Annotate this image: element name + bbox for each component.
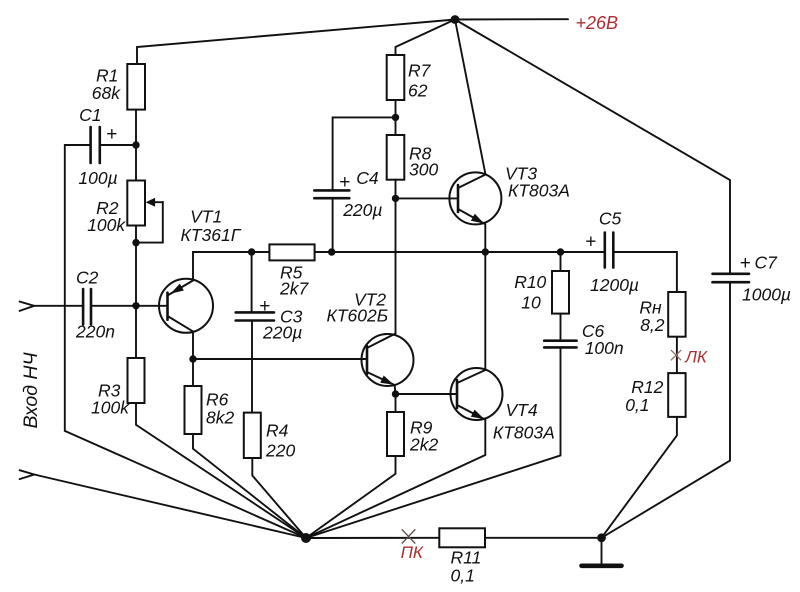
svg-text:КТ361Г: КТ361Г (181, 225, 242, 245)
wire R2 bottom to R3 top (135, 226, 137, 359)
wire R7/R8 node to C4 top (333, 117, 396, 190)
svg-text:300: 300 (409, 160, 438, 180)
wire output rail (332, 251, 605, 253)
label R4 value (265, 421, 295, 461)
svg-text:C4: C4 (356, 168, 379, 188)
wire supply node to R1 top (137, 20, 455, 65)
resistor R4 220 (244, 413, 261, 458)
label C1 value (78, 105, 117, 188)
wire C1 ground branch down and diagonal to ground node (65, 145, 306, 538)
wire C3 bottom to R4 top (251, 321, 253, 413)
svg-text:100n: 100n (585, 338, 624, 358)
node C4 bottom on output rail (328, 248, 335, 255)
label R12 value (625, 377, 663, 415)
wire R11 to ground symbol node (485, 537, 602, 539)
wire R5 right to rail (315, 251, 332, 253)
label C7 value (740, 253, 792, 305)
wire C5 right to Rn (613, 252, 677, 292)
node VT3 emitter / VT4 collector on rail (482, 248, 489, 255)
wire R6 bottom diagonal to ground node (193, 434, 306, 538)
wire node to R8 top (395, 117, 397, 135)
wire C2 to VT1 base node (91, 305, 136, 307)
wire supply node to VT3 collector (455, 20, 486, 175)
transistor VT3 KT803A (NPN) (396, 172, 502, 224)
svg-text:C1: C1 (79, 105, 101, 125)
svg-text:КТ803А: КТ803А (508, 181, 570, 201)
wiper arrow of R2 (146, 198, 163, 207)
wire supply node to R7 top (396, 20, 456, 56)
label R7 value (408, 61, 432, 101)
wire VT1 emitter to R5 node (193, 252, 252, 281)
resistor R5 2k7 (269, 244, 314, 260)
resistor R7 62 (387, 55, 405, 100)
wire VT4 collector up to rail node (484, 252, 486, 370)
svg-text:100µ: 100µ (78, 168, 117, 188)
input terminal arrow (signal) (20, 302, 35, 311)
node +26V supply junction (451, 15, 460, 24)
wire supply node to +26V terminal (455, 18, 568, 20)
label R2 value (87, 198, 126, 235)
node C5/R10 on rail (557, 248, 564, 255)
wire C1 right plate to junction (100, 144, 136, 146)
label VT3 type (505, 164, 570, 201)
node R8/VT3 base/VT2 collector (392, 195, 399, 202)
svg-text:+: + (259, 296, 270, 317)
wire to VT2 base (193, 358, 367, 360)
resistor R8 300 (387, 135, 405, 180)
svg-text:2k2: 2k2 (409, 435, 438, 455)
wire supply node to C7 (455, 20, 730, 274)
label C2 value (75, 268, 115, 342)
svg-text:2k7: 2k7 (279, 279, 309, 299)
svg-text:220: 220 (265, 441, 295, 461)
svg-text:220n: 220n (75, 322, 115, 342)
svg-text:VT1: VT1 (190, 206, 222, 226)
wire node down to C3 (251, 252, 253, 312)
label Rn value (639, 298, 664, 335)
resistor Rn 8,2 (load) (668, 292, 685, 337)
label VT1 type (181, 206, 242, 244)
svg-text:C2: C2 (76, 268, 99, 288)
svg-text:1200µ: 1200µ (590, 275, 639, 295)
capacitor C7 1000u (713, 274, 750, 282)
wire rail node to R10 top (560, 252, 562, 271)
svg-text:+: + (585, 231, 596, 252)
wire ground node to R11 (306, 537, 439, 539)
svg-text:8k2: 8k2 (206, 408, 234, 428)
node R1/C1/R2 junction (132, 141, 139, 148)
label R1 value (92, 66, 121, 104)
label VT4 type (493, 400, 555, 443)
node main ground junction (301, 533, 311, 543)
wire input to C2 (34, 305, 83, 307)
node VT1 base junction (132, 302, 139, 309)
wire C6 bottom diagonal to ground node (306, 347, 561, 538)
svg-text:R6: R6 (206, 390, 229, 410)
wire R4 bottom diagonal to ground node (252, 458, 306, 538)
resistor R12 0,1 (668, 373, 685, 417)
node at ground symbol (597, 533, 606, 542)
node R5/C3/VT1 emitter junction (248, 248, 255, 255)
label PK (right channel) (401, 543, 424, 562)
svg-text:R4: R4 (266, 421, 289, 441)
svg-text:ПК: ПК (401, 543, 424, 562)
svg-text:R10: R10 (514, 272, 546, 292)
wire R7 bottom to node (395, 100, 397, 117)
node R7/R8/C4 junction (392, 114, 399, 121)
capacitor C3 220u (236, 312, 274, 320)
label C6 value (582, 321, 624, 358)
svg-text:R7: R7 (408, 61, 432, 81)
wire Rn bottom to R12 top (676, 337, 678, 373)
svg-text:C7: C7 (755, 253, 779, 273)
capacitor C5 1200u (605, 233, 614, 268)
label input Vhod NCh (20, 351, 42, 428)
wire R2 wiper to lower terminal (136, 202, 163, 243)
node VT2 emitter / R9 / VT4 base (392, 390, 399, 397)
svg-text:8,2: 8,2 (640, 315, 665, 335)
svg-text:10: 10 (521, 292, 541, 312)
wire node to R9 top (395, 394, 397, 412)
label +26V supply (576, 13, 619, 33)
wire R12 bottom diagonal to ground point (602, 417, 677, 538)
transistor VT1 KT361G (PNP) (136, 279, 213, 333)
wire R8 bottom to VT3 base node (395, 180, 397, 199)
label R6 value (206, 390, 234, 428)
svg-text:220µ: 220µ (262, 323, 302, 343)
svg-text:+: + (106, 124, 117, 145)
resistor R2 100k (trimmer) (127, 181, 145, 226)
capacitor C2 220n (83, 289, 91, 324)
wire R1 bottom to R2 top (135, 110, 137, 181)
mark X on LK wire (671, 350, 681, 360)
transistor VT4 KT803A (NPN) (451, 368, 503, 420)
svg-text:1000µ: 1000µ (742, 285, 791, 305)
wire VT1 collector to driver node (192, 331, 194, 359)
transistor VT2 KT602B (NPN) (362, 334, 414, 387)
wire C4 bottom to output rail (332, 198, 334, 252)
label R5 value (279, 263, 309, 299)
resistor R3 100k (128, 358, 145, 403)
resistor R10 10 (552, 271, 569, 314)
wire R3 bottom diagonal to ground node (136, 403, 306, 538)
svg-text:220µ: 220µ (342, 200, 382, 220)
svg-text:ЛК: ЛК (684, 347, 708, 366)
label C5 value (585, 209, 639, 296)
wire node to R6 top (192, 359, 194, 386)
wire C1 left plate to ground branch (65, 144, 91, 146)
node VT1 collector / R6 / VT2 base (189, 355, 196, 362)
capacitor C6 100n (544, 341, 576, 348)
wire C7 bottom diagonal to ground point (602, 282, 731, 538)
svg-text:+: + (740, 253, 751, 274)
capacitor C4 220u (bootstrap) (314, 190, 349, 198)
svg-text:КТ602Б: КТ602Б (327, 306, 389, 326)
wire VT2 emitter to node (394, 385, 397, 394)
ground (582, 538, 622, 566)
wire R9 bottom diagonal to ground node (306, 456, 396, 538)
label R9 value (409, 418, 438, 455)
label VT2 type (327, 290, 389, 326)
wire VT3 base node down to VT2 collector (crosses rail) (395, 198, 397, 333)
svg-text:0,1: 0,1 (451, 566, 475, 586)
label R10 value (514, 272, 546, 312)
wire node to VT4 base (396, 393, 458, 395)
svg-text:100k: 100k (87, 215, 126, 235)
label C4 value (339, 168, 382, 220)
node R2 wiper junction (132, 239, 139, 246)
label C3 value (259, 296, 303, 343)
svg-text:62: 62 (408, 81, 428, 101)
svg-text:0,1: 0,1 (625, 395, 649, 415)
wire R10 bottom to C6 (560, 314, 562, 341)
svg-text:68k: 68k (92, 83, 121, 103)
resistor R1 68k (127, 64, 145, 110)
resistor R6 8k2 (185, 386, 202, 434)
svg-text:КТ803А: КТ803А (493, 423, 555, 443)
wire VT3 emitter to output rail (484, 224, 486, 252)
capacitor C1 100u (91, 127, 100, 163)
label R11 value (451, 548, 482, 586)
svg-text:C5: C5 (599, 209, 622, 229)
svg-text:+: + (339, 172, 350, 193)
resistor R9 2k2 (387, 412, 404, 456)
mark X on PK wire (402, 529, 416, 543)
wire node to R5 left (252, 251, 270, 253)
resistor R11 0,1 (439, 528, 485, 547)
label R3 value (91, 381, 130, 418)
svg-text:VT4: VT4 (506, 400, 538, 420)
svg-text:R11: R11 (451, 548, 482, 568)
svg-text:Вход НЧ: Вход НЧ (20, 351, 42, 428)
wire VT4 emitter diagonal to ground node (306, 420, 485, 539)
svg-text:+26В: +26В (576, 13, 619, 33)
input terminal arrow (ground) (20, 470, 35, 479)
label R8 value (409, 144, 438, 180)
label LK (left channel) (684, 347, 708, 366)
svg-text:100k: 100k (91, 398, 130, 418)
wire input ground to ground node (34, 475, 306, 539)
